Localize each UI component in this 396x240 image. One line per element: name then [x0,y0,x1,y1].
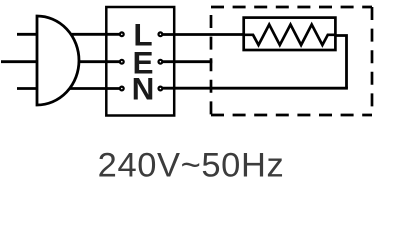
enclosure right edge [371,7,374,115]
svg-text:N: N [132,71,155,107]
terminal dot N right [159,87,163,91]
wire E terminal to enclosure [160,60,212,63]
terminal dot L right [159,32,163,36]
terminal dot L left [120,32,124,36]
wire N plug to terminal [60,87,122,90]
enclosure (dashed appliance case) top edge [211,6,372,9]
heating element R1 zigzag [244,25,336,46]
wire L plug to terminal [60,33,122,36]
plug P1 (mains plug) [37,16,79,105]
wire N terminal to heater return [160,87,348,90]
terminal dot E left [120,60,124,64]
wire E pin stub [1,60,37,63]
wire E plug to terminal [60,60,122,63]
wire heater output down leg [335,36,346,89]
wire L pin stub [17,33,37,36]
heating element R1 body [244,18,336,50]
terminal dot E right [159,60,163,64]
wire L terminal to heater [160,33,244,36]
wire N pin stub [17,87,37,90]
terminal block TB1 [106,7,174,116]
enclosure left edge [210,7,213,115]
svg-text:240V~50Hz: 240V~50Hz [98,147,285,185]
terminal dot N left [120,87,124,91]
enclosure bottom edge [211,114,372,117]
